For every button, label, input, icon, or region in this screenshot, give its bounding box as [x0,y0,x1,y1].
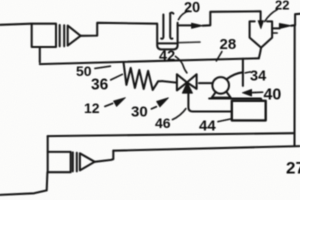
svg-text:20: 20 [184,0,201,16]
wire atomizer 26 drain [0,172,47,195]
vessel 22 outlet lower dash [272,32,277,34]
wire discharge to box 44 [209,99,261,102]
svg-text:34: 34 [250,69,266,85]
wire top right exit [291,14,300,26]
svg-text:50: 50 [76,63,92,79]
pump 34 base [212,92,231,98]
label 28 leader dash [216,52,222,61]
atomizer 26 inner bar 1 [72,152,74,171]
svg-text:22: 22 [275,0,289,13]
vessel 22 [250,21,273,47]
wire feed line into atomizer 12 [0,24,32,25]
atomizer 26 body [48,152,71,172]
scan noise background [0,0,300,200]
atomizer 12 cone [68,26,81,46]
svg-text:36: 36 [91,77,109,94]
arrowhead on vessel 42 outlet [192,23,203,28]
label 12 leader dash [105,103,113,106]
atomizer 26 cone [80,153,95,170]
svg-text:27: 27 [286,159,300,178]
label 12 arrowhead [114,98,126,107]
valve 28 left triangle [177,74,187,90]
svg-text:30: 30 [131,104,148,121]
wire atomizer 12 outlet to vessel 42 [81,23,157,36]
label 46 leader [172,109,186,120]
svg-text:42: 42 [159,49,175,65]
label 40 arrowhead [242,89,251,96]
arrowhead into vessel 22 [258,21,263,29]
wire atomizer 12 drain [39,47,41,62]
svg-text:28: 28 [220,36,237,53]
wire valve to pump suction [199,82,212,84]
box 44 [232,101,266,121]
wire atomizer 26 outlet [95,151,114,162]
wire pump discharge [226,72,242,79]
wire valve 28 drain [188,93,231,111]
label 50 leader dash [95,66,111,68]
valve 28 lower wedge [182,82,192,93]
label 22 leader [265,10,278,22]
restrictor 36 zigzag [124,62,163,90]
arrowhead vessel 22 outlet [279,23,291,28]
svg-text:12: 12 [84,100,100,116]
svg-text:44: 44 [199,118,216,135]
label 30 arrowhead [157,98,169,107]
squiggle leader onto valve top [175,56,187,73]
label 20 leader [178,11,188,20]
vessel 42 level line [159,42,177,44]
wire vessel 22 outlet [272,27,280,29]
label 34 leader dash [245,72,250,73]
wire restrictor to valve [162,81,176,83]
vessel 42 tube 1 [161,15,163,39]
wire right bus down [293,25,295,145]
svg-text:40: 40 [264,87,282,104]
wire riser to pipe P1 [242,59,244,86]
label 36 leader dash [111,74,123,80]
svg-text:46: 46 [155,115,171,131]
atomizer 12 body [32,24,56,47]
label 40 leader dash [253,91,263,93]
atomizer 26 inner bar 2 [76,153,78,172]
wire line A drop to atomizer 26 [47,136,49,152]
label 30 leader dash [151,107,156,109]
wire vessel 42 lower outlet [178,41,200,44]
atomizer 12 inner bar 1 [59,25,61,46]
wire line A upper return [48,133,294,136]
vessel 42 tube 2 top hook [170,12,173,15]
wire line B lower return [113,146,299,151]
atomizer 12 inner bar 2 [63,25,65,46]
valve 28 right triangle [187,74,197,89]
label 44 leader [218,119,231,122]
vessel 42 tube 2 [170,13,172,38]
wire overhead link to vessel 22 [203,11,261,25]
vessel 42 [157,23,177,50]
wire vessel 22 drain [259,48,261,58]
pump 34 circle [212,77,229,94]
wire vessel 42 upper outlet [178,24,192,26]
wire main pipe P1 [40,58,259,64]
